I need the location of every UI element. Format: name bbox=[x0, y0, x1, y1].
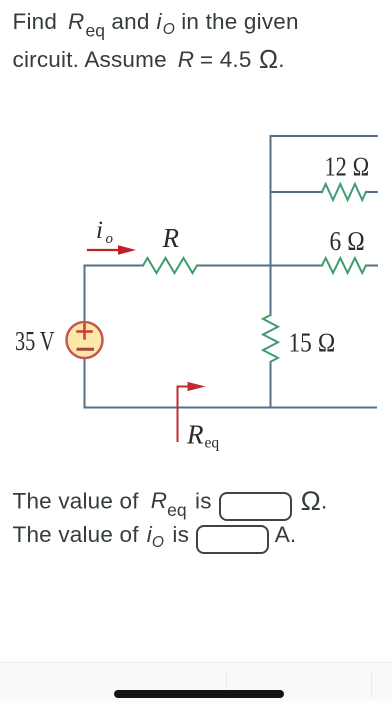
voltage source plus sign bbox=[78, 325, 92, 339]
footer bar bbox=[0, 662, 392, 701]
home indicator bar bbox=[114, 690, 284, 698]
wire: right stub of 6-ohm branch bbox=[366, 265, 377, 267]
wire: top wire of upper-right branch bbox=[271, 135, 378, 137]
resistor R (zigzag) bbox=[143, 258, 197, 273]
wire: right stub of 12-ohm branch bbox=[366, 191, 377, 193]
wire: main horizontal, left node to R bbox=[85, 265, 144, 267]
svg-text:35 V: 35 V bbox=[15, 325, 55, 356]
voltage source 35 V (circle) bbox=[67, 322, 103, 358]
voltage source minus sign bbox=[78, 348, 93, 351]
svg-text:i: i bbox=[96, 217, 103, 244]
wire: left lead of 12-ohm branch bbox=[271, 191, 323, 193]
svg-text:R: R bbox=[162, 223, 180, 253]
svg-text:12 Ω: 12 Ω bbox=[325, 152, 370, 182]
wire: centre vertical lower segment bbox=[270, 362, 272, 408]
wire: R to centre vertical node bbox=[197, 265, 322, 267]
answer line 2 bbox=[13, 520, 297, 555]
svg-text:6 Ω: 6 Ω bbox=[330, 226, 366, 256]
wire: left vertical above source bbox=[84, 266, 86, 323]
svg-text:R: R bbox=[186, 420, 204, 450]
circuit schematic bbox=[0, 0, 392, 470]
resistor 6 ohm (zigzag) bbox=[322, 258, 366, 273]
answer line 1 bbox=[13, 486, 328, 521]
wire: centre vertical upper segment bbox=[270, 136, 272, 315]
resistor 15 ohm (vertical zigzag) bbox=[263, 315, 278, 362]
resistor 12 ohm (zigzag) bbox=[322, 184, 366, 200]
wire: left vertical below source bbox=[84, 358, 86, 408]
svg-text:o: o bbox=[106, 231, 114, 247]
Req arrow bbox=[178, 387, 191, 442]
svg-text:eq: eq bbox=[205, 435, 220, 452]
question text line 1 bbox=[13, 3, 299, 80]
current arrow i_o bbox=[88, 249, 121, 251]
wire: bottom wire bbox=[85, 407, 377, 409]
svg-text:15 Ω: 15 Ω bbox=[289, 328, 336, 358]
